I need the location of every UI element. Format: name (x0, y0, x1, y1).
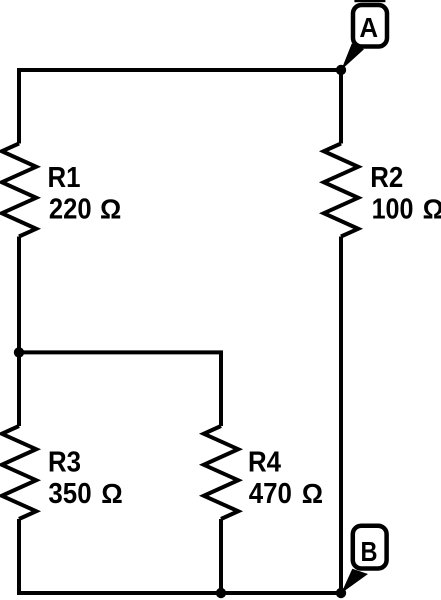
terminal B tail (341, 569, 368, 594)
svg-text:220: 220 (49, 194, 92, 226)
node junction dot left (14, 347, 24, 357)
resistor R2 (324, 144, 358, 237)
svg-text:R4: R4 (248, 447, 281, 479)
resistor R1 (2, 144, 36, 237)
svg-text:470: 470 (249, 478, 292, 510)
svg-text:A: A (359, 12, 378, 43)
terminal A box (353, 5, 387, 47)
resistor R3 (2, 426, 36, 519)
svg-text:R1: R1 (48, 162, 81, 194)
svg-text:R2: R2 (370, 162, 403, 194)
wire left bottom + bottom horizontal (19, 519, 343, 593)
wire R4 bottom (219, 519, 223, 593)
svg-text:350: 350 (48, 478, 91, 510)
svg-text:Ω: Ω (100, 194, 121, 225)
wire right bottom (339, 237, 343, 594)
svg-text:100: 100 (372, 194, 414, 226)
wire left middle (17, 237, 21, 427)
svg-text:Ω: Ω (101, 478, 123, 509)
terminal B box (353, 526, 387, 569)
svg-text:B: B (361, 536, 378, 567)
svg-text:Ω: Ω (302, 478, 323, 509)
cropped element top edge (354, 0, 385, 2)
wire node branch horizontal and down (19, 352, 221, 426)
svg-text:R3: R3 (48, 447, 81, 479)
node B junction dot (336, 588, 346, 598)
terminal A tail (341, 44, 364, 71)
wire right top (339, 70, 343, 144)
wire top horizontal (19, 70, 343, 144)
node junction dot bottom (216, 588, 226, 598)
node A junction dot (336, 65, 346, 75)
resistor R4 (204, 426, 238, 519)
svg-text:Ω: Ω (423, 194, 441, 225)
